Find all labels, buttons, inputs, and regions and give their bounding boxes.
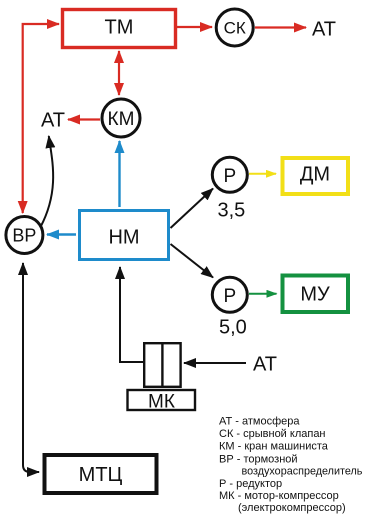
svg-text:КМ: КМ bbox=[108, 109, 135, 130]
svg-text:АТ: АТ bbox=[41, 110, 65, 132]
svg-text:воздухораспределитель: воздухораспределитель bbox=[242, 466, 363, 478]
svg-text:Р: Р bbox=[223, 166, 236, 187]
svg-text:ТМ: ТМ bbox=[105, 17, 134, 39]
svg-text:ВР: ВР bbox=[12, 226, 36, 246]
svg-text:АТ - атмосфера: АТ - атмосфера bbox=[219, 416, 300, 428]
svg-text:АТ: АТ bbox=[312, 19, 336, 41]
svg-text:Р - редуктор: Р - редуктор bbox=[219, 478, 282, 490]
svg-text:(электрокомпрессор): (электрокомпрессор) bbox=[238, 502, 346, 514]
svg-text:СК - срывной клапан: СК - срывной клапан bbox=[219, 428, 326, 440]
svg-text:МТЦ: МТЦ bbox=[79, 464, 123, 486]
svg-text:МУ: МУ bbox=[300, 284, 330, 306]
svg-text:АТ: АТ bbox=[253, 354, 277, 376]
svg-text:НМ: НМ bbox=[108, 227, 139, 249]
svg-text:КМ - кран машиниста: КМ - кран машиниста bbox=[219, 441, 329, 453]
svg-text:МК - мотор-компрессор: МК - мотор-компрессор bbox=[219, 490, 339, 502]
svg-text:3,5: 3,5 bbox=[218, 200, 246, 222]
svg-text:Р: Р bbox=[223, 286, 236, 307]
svg-text:5,0: 5,0 bbox=[219, 317, 247, 339]
svg-text:ВР - тормозной: ВР - тормозной bbox=[219, 453, 298, 465]
svg-text:СК: СК bbox=[224, 19, 246, 38]
svg-text:МК: МК bbox=[148, 392, 175, 413]
svg-text:ДМ: ДМ bbox=[300, 164, 330, 186]
